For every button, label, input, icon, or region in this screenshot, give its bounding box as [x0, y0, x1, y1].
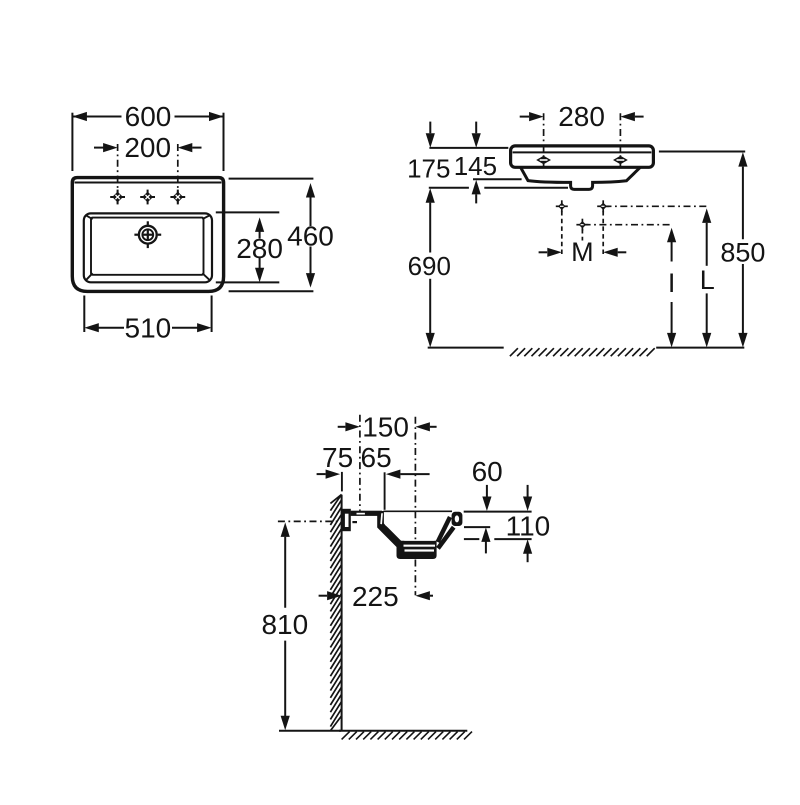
leader underside level [464, 538, 479, 540]
leader at 690 top [429, 187, 469, 189]
front view: dash-dot tap axes [543, 113, 545, 167]
dim 280 [259, 229, 261, 239]
svg-text:460: 460 [287, 221, 334, 252]
dim 175 top arrow [429, 122, 431, 134]
dim M [539, 251, 548, 253]
plan view: inner basin bevel rect [91, 218, 204, 275]
front view: rim inner line [513, 151, 652, 153]
svg-text:60: 60 [472, 456, 503, 487]
dim 75 / 65 arrow row [317, 473, 326, 475]
svg-text:150: 150 [362, 411, 409, 442]
dim L [702, 208, 711, 223]
svg-text:L: L [700, 265, 715, 295]
plan view: tap hole symbol [117, 190, 119, 205]
dim 600 extension lines [71, 113, 73, 171]
ground line (front view) [428, 347, 504, 349]
mounting hole symbol [602, 200, 604, 212]
front view: tap hole symbol [613, 156, 628, 165]
svg-text:I: I [668, 268, 676, 298]
dim 200 [94, 147, 104, 149]
side view: bowl front wall [436, 516, 452, 543]
wall face extension tick [341, 472, 343, 492]
side view: far rim edge line [384, 510, 453, 512]
dim I [667, 228, 676, 243]
svg-text:175: 175 [407, 154, 450, 184]
svg-text:145: 145 [454, 151, 497, 181]
dim 460 [310, 197, 312, 227]
svg-text:M: M [571, 237, 594, 267]
plan view: dash-dot tap axes [117, 144, 119, 204]
dash-dot fixing level line [278, 520, 338, 522]
leader at basin bottom (145) [473, 178, 522, 180]
dim 810 [281, 522, 290, 537]
side view: drain trap block [397, 541, 437, 559]
side view: front underside strip [436, 526, 455, 550]
svg-text:110: 110 [506, 511, 551, 542]
wall face line [341, 495, 343, 731]
plan view: inner basin rounded rect [84, 213, 212, 282]
dim 510 [99, 327, 125, 329]
dashed hole axes [561, 211, 563, 255]
ground hatch (side) [342, 732, 472, 740]
svg-text:810: 810 [261, 609, 308, 640]
dim 150 [338, 426, 346, 428]
side view: white details [380, 513, 383, 524]
mounting hole symbol [561, 200, 563, 212]
svg-text:600: 600 [125, 101, 172, 132]
leader rim top (side) [464, 511, 532, 513]
dash-dot tap axis (side) [359, 415, 361, 511]
plan view: rim inner back line [75, 182, 222, 184]
dim 225 [319, 595, 327, 597]
dim 60 bottom arrow [481, 527, 490, 542]
ground line (side) [339, 730, 467, 732]
dash-dot drain axis (side) [414, 417, 416, 448]
ground hatch (front view) [510, 348, 655, 356]
dim 60 down arrows [486, 485, 488, 497]
side view: bowl back wall [377, 511, 404, 548]
leader under spout [484, 187, 568, 189]
ground leader (side) [279, 730, 341, 732]
wall hatching [330, 494, 341, 730]
plan view: bevel corner diagonals [85, 215, 92, 219]
bowl back extension tick [384, 472, 386, 510]
dim 460 leader lines [229, 178, 314, 180]
svg-text:690: 690 [408, 251, 451, 281]
dash-dot hole level lines [605, 205, 709, 207]
svg-text:510: 510 [125, 312, 172, 343]
dim 510 extension lines [83, 296, 85, 333]
svg-text:225: 225 [352, 581, 399, 612]
plan view: basin outer outline [72, 178, 223, 292]
plan view: tap hole symbol [147, 190, 149, 205]
front view: tap hole symbol [536, 156, 551, 165]
leader 850 (rim top right) [659, 151, 745, 153]
plan view: drain symbol [139, 226, 157, 244]
front view: rim body [511, 146, 654, 167]
dash-dot drain axis through bowl [414, 448, 416, 541]
side view: front rim loop [452, 512, 463, 526]
dim 600 [72, 116, 121, 118]
dim 145 top arrow [475, 122, 477, 134]
svg-text:200: 200 [124, 132, 171, 163]
mounting hole symbol [581, 219, 583, 231]
plan view: tap hole symbol [177, 190, 179, 205]
side view: rim deck band [351, 511, 382, 516]
top leader line (rim top level) [429, 147, 508, 149]
dim 145 bottom arrow [472, 180, 481, 195]
svg-text:65: 65 [361, 442, 392, 473]
leader rim bottom (side) [464, 526, 490, 528]
dim 690 [426, 188, 435, 203]
front view: bowl outline [521, 167, 640, 189]
svg-text:280: 280 [558, 101, 605, 132]
svg-text:850: 850 [720, 237, 765, 267]
side view: fixing lug [342, 509, 351, 531]
dim 280 (front) [520, 116, 529, 118]
dim 280 leader lines [216, 211, 279, 213]
svg-text:75: 75 [322, 442, 353, 473]
dim 850 [738, 152, 747, 167]
svg-text:280: 280 [236, 233, 283, 264]
